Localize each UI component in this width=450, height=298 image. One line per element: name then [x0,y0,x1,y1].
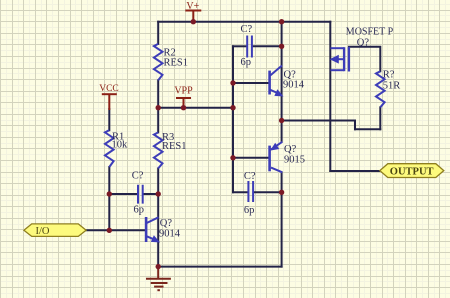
svg-text:9014: 9014 [283,80,305,91]
transistor Q1 9014 (bottom) [146,217,158,242]
wire R3 bottom through Q1 to ground node [157,168,159,266]
wire VPP horizontal [158,107,233,109]
wire gate resistor top to gate bar [349,47,380,72]
svg-text:VCC: VCC [99,84,119,94]
node Q3 base column [230,155,235,160]
resistor R1 [105,130,114,167]
MOSFET Q4 P-channel [331,47,349,72]
port OUTPUT [380,164,444,178]
transistor Q2 9014 (top) [270,66,282,95]
wire left drop from rail to R2 [157,22,159,44]
svg-text:C?: C? [241,24,253,35]
resistor R3 [154,132,163,168]
wire VPP node down to R3 [157,108,159,133]
transistor Q3 9015 [270,142,283,173]
power V+ [185,11,201,22]
wire left cap left lead [109,193,137,195]
node VPP right [230,105,235,110]
wire gate drive step horizontal [355,128,380,130]
wire gate drive step down [354,121,356,130]
wire gate resistor bottom riser [379,107,381,129]
node bottom cap right [279,190,284,195]
wire R2 bottom to VPP node [157,80,159,107]
capacitor C1 plates (top) [247,36,252,58]
capacitor C2 plates (left) [138,185,143,204]
node V+ junction [191,19,196,24]
svg-text:OUTPUT: OUTPUT [390,167,434,178]
wire bottom cap left lead [233,191,247,193]
svg-text:RES1: RES1 [162,141,187,152]
svg-text:9015: 9015 [284,154,305,165]
power VPP [176,98,191,108]
wire bottom cap right lead [254,191,282,193]
capacitor C3 plates (bottom) [248,181,253,202]
wire base of Q3 [233,157,269,159]
svg-text:R?: R? [383,70,395,81]
node top cap right [279,44,284,49]
node rail/right column [279,19,284,24]
svg-text:VPP: VPP [174,86,193,97]
node ground junction [156,264,161,269]
svg-text:10k: 10k [112,140,129,151]
power VCC [102,94,117,110]
svg-text:6p: 6p [244,205,255,216]
node VPP left [156,105,161,110]
wire MOSFET vertical drain line [329,22,331,171]
node I/O wire [107,228,112,233]
resistor R4 51R [376,71,385,107]
wire top cap right lead [253,45,282,47]
node left cap right [156,191,161,196]
svg-text:6p: 6p [241,57,252,68]
wire top cap left lead [233,45,246,47]
node gate drive [279,118,284,123]
wire R1 bottom to I/O wire [108,167,110,230]
svg-text:9014: 9014 [159,229,181,240]
svg-text:MOSFET P: MOSFET P [346,26,394,37]
svg-text:51R: 51R [383,80,401,91]
wire right vertical from rail through Q2 [281,22,283,142]
node left cap left [107,191,112,196]
wire to OUTPUT port [330,170,379,172]
wire top rail V+ [158,21,330,23]
svg-text:Q?: Q? [357,37,370,48]
wire VCC stem to R1 [108,109,110,130]
wire left mid vertical (cap/cap/base column) [232,46,234,192]
node VPP stem [181,105,186,110]
node Q2 base column top [230,80,235,85]
svg-text:I/O: I/O [36,226,50,237]
svg-text:6p: 6p [134,205,145,216]
wire bottom cap branch up [281,192,283,266]
svg-text:C?: C? [132,171,144,182]
svg-text:Q?: Q? [160,218,173,229]
ground [146,267,171,291]
wire I/O to Q1 base [86,229,145,231]
wire left cap right lead [144,193,159,195]
svg-text:RES1: RES1 [164,57,189,68]
wire Q3 collector down to cap node [281,172,283,192]
svg-text:C?: C? [244,171,256,182]
svg-text:V+: V+ [186,1,199,12]
resistor R2 [154,44,163,80]
wire gate drive horizontal [282,120,355,122]
wire base of Q2 [233,82,269,84]
wire bottom horizontal to cap branch [158,266,281,268]
port I/O [24,224,86,237]
